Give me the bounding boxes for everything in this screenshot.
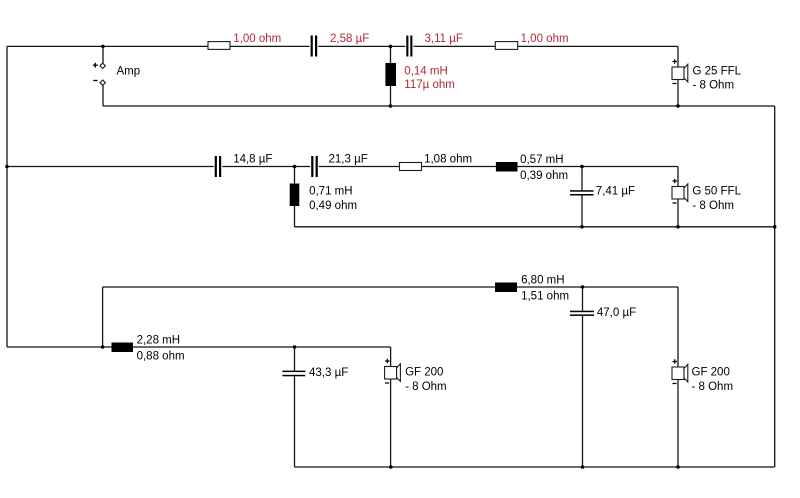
junction node mid return at right rail <box>773 225 777 229</box>
wire: shunt C5 top lead <box>581 167 583 191</box>
wire: GF200 left speaker top lead <box>390 347 392 367</box>
junction node bottom return at GF200 right <box>676 465 680 469</box>
svg-text:1,08 ohm: 1,08 ohm <box>424 154 472 166</box>
svg-text:0,14 mH: 0,14 mH <box>404 65 447 77</box>
svg-text:GF 200: GF 200 <box>692 366 730 378</box>
svg-text:- 8 Ohm: - 8 Ohm <box>692 381 734 393</box>
svg-text:0,49 ohm: 0,49 ohm <box>309 200 357 212</box>
resistor R1 1,00 ohm <box>208 42 230 50</box>
svg-text:14,8 µF: 14,8 µF <box>233 154 272 166</box>
speaker GF 200 right <box>672 359 688 383</box>
svg-text:2,28 mH: 2,28 mH <box>137 334 180 346</box>
wire: shunt L1 bottom lead <box>390 86 392 106</box>
wire: right rail vertical x=775 <box>774 106 776 467</box>
inductor L5 6,80 mH series <box>495 283 517 293</box>
svg-text:0,71 mH: 0,71 mH <box>309 186 352 198</box>
junction node return bus at G25 <box>676 104 680 108</box>
svg-text:- 8 Ohm: - 8 Ohm <box>693 79 735 91</box>
svg-text:GF 200: GF 200 <box>405 366 443 378</box>
svg-text:1,00 ohm: 1,00 ohm <box>521 33 569 45</box>
wire: shunt C7 top lead <box>582 287 584 311</box>
capacitor C6 43,3 uF shunt <box>282 371 305 377</box>
capacitor C7 47,0 uF shunt <box>570 311 594 316</box>
wire: amp plus lead vertical <box>102 46 104 63</box>
svg-text:G 25 FFL: G 25 FFL <box>693 65 742 77</box>
svg-text:1,51 ohm: 1,51 ohm <box>521 290 569 302</box>
wire: G50 speaker bottom lead <box>677 199 679 227</box>
wire: top bus segment after C2 to speaker drop <box>412 45 678 47</box>
junction node bottom feed branch <box>101 345 105 349</box>
wire: GF200 right speaker top lead <box>677 287 679 367</box>
wire: GF200 left speaker bottom lead <box>390 379 392 467</box>
junction node mid return at G50 <box>676 225 680 229</box>
capacitor C4 21,3 uF <box>310 156 319 177</box>
inductor L2 0,71 mH shunt <box>290 184 300 207</box>
svg-text:3,11 µF: 3,11 µF <box>425 33 463 45</box>
amp negative terminal <box>100 80 105 85</box>
wire: mid bus after C4 to speaker drop <box>318 166 678 168</box>
resistor R2 1,00 ohm <box>495 42 517 50</box>
capacitor C2 3,11 uF <box>405 36 413 57</box>
junction node upper feed at shunt C7 <box>581 285 585 289</box>
svg-text:- 8 Ohm: - 8 Ohm <box>692 200 734 212</box>
svg-text:2,58 µF: 2,58 µF <box>330 33 369 45</box>
wire: mid return bus y=227 <box>295 226 775 228</box>
inductor L3 0,57 mH series <box>496 162 518 172</box>
junction node mid return at shunt C5 <box>580 225 584 229</box>
speaker G 25 FFL <box>672 59 688 83</box>
inductor L1 0,14 mH shunt <box>385 63 396 86</box>
svg-text:117µ ohm: 117µ ohm <box>404 79 455 91</box>
svg-text:0,88 ohm: 0,88 ohm <box>137 350 185 362</box>
junction node return bus at shunt L1 <box>389 104 393 108</box>
junction node top bus at amp <box>101 45 105 49</box>
wire: shunt L1 top lead <box>390 46 392 63</box>
speaker GF 200 left <box>385 359 401 383</box>
svg-text:- 8 Ohm: - 8 Ohm <box>405 381 447 393</box>
amp plus sign <box>93 63 98 68</box>
wire: top return bus y=106 <box>103 105 775 107</box>
wire: shunt C7 bottom lead <box>582 316 584 467</box>
speaker G 50 FFL <box>672 179 688 203</box>
wire: top bus segment between C1 and C2 <box>317 45 406 47</box>
wire: shunt C5 bottom lead <box>581 196 583 227</box>
wire: mid bus y=166.5 to C3 <box>7 166 215 168</box>
inductor L4 2,28 mH series <box>112 343 134 353</box>
wire: mid bus between C3 and C4 <box>221 166 311 168</box>
wire: shunt C6 top lead <box>294 347 296 371</box>
wire: GF200 right speaker bottom lead <box>677 380 679 468</box>
junction node bottom return at shunt C7 <box>581 465 585 469</box>
wire: branch vertical x=102.6 up to upper feed <box>102 287 104 347</box>
wire: upper feed y=287 through L5 to right speaker <box>103 286 678 288</box>
amp minus sign <box>93 80 97 82</box>
capacitor C5 7,41 uF shunt <box>570 190 594 195</box>
wire: G50 speaker top lead <box>677 167 679 187</box>
wire: shunt C6 bottom lead <box>294 376 296 467</box>
junction node top bus at shunt L1 <box>389 45 393 49</box>
svg-text:47,0 µF: 47,0 µF <box>597 307 636 319</box>
junction node mid bus at shunt L2 <box>293 165 297 169</box>
svg-text:6,80 mH: 6,80 mH <box>521 275 564 287</box>
resistor R3 1,08 ohm <box>400 163 422 171</box>
svg-text:43,3 µF: 43,3 µF <box>309 367 348 379</box>
svg-text:G 50 FFL: G 50 FFL <box>692 185 741 197</box>
junction node mid bus at shunt C5 <box>580 165 584 169</box>
junction node bottom feed at shunt C6 <box>293 345 297 349</box>
junction node left rail mid tap <box>5 165 9 169</box>
capacitor C3 14,8 uF <box>214 156 223 177</box>
wire: bottom return bus y=467 <box>295 466 775 468</box>
svg-text:Amp: Amp <box>117 66 141 78</box>
wire: shunt L2 top lead <box>294 167 296 184</box>
amp positive terminal <box>100 63 105 68</box>
svg-text:21,3 µF: 21,3 µF <box>329 154 368 166</box>
wire: G25 speaker top lead <box>677 46 679 67</box>
wire: top bus horizontal y=46 from left rail to tweeter branch <box>7 45 311 47</box>
wire: amp minus lead vertical down to return <box>102 86 104 107</box>
svg-text:0,57 mH: 0,57 mH <box>520 154 563 166</box>
svg-text:0,39 ohm: 0,39 ohm <box>520 170 568 182</box>
wire: shunt L2 bottom lead <box>294 206 296 227</box>
wire: G25 speaker bottom lead <box>677 80 679 107</box>
junction node bottom return at GF200 left <box>389 465 393 469</box>
svg-text:1,00 ohm: 1,00 ohm <box>233 33 281 45</box>
capacitor C1 2,58 uF <box>310 36 319 57</box>
wire: left rail vertical x=7 <box>6 46 8 347</box>
wire: bottom feed y=347 from left rail through L4 <box>7 346 391 348</box>
svg-text:7,41 µF: 7,41 µF <box>596 185 635 197</box>
